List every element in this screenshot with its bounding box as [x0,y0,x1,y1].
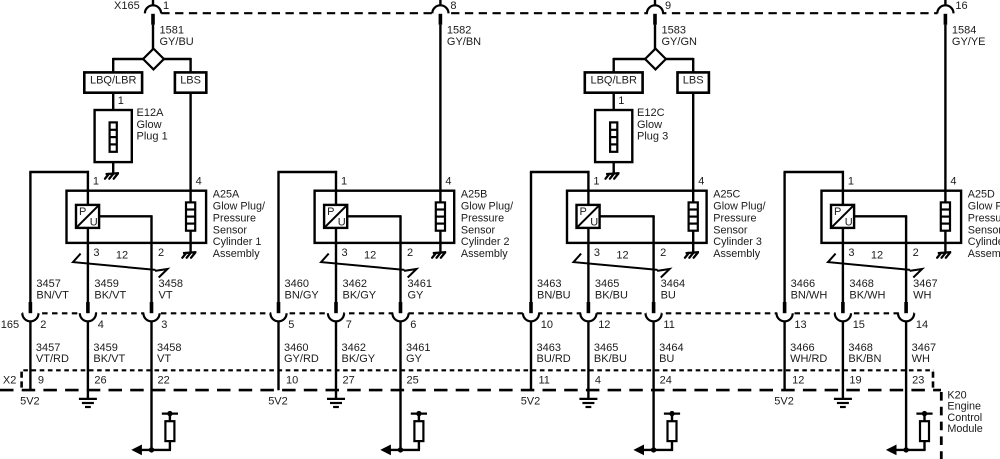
svg-text:5: 5 [288,319,294,331]
svg-text:Sensor: Sensor [213,224,248,236]
svg-text:3465: 3465 [595,278,619,290]
svg-text:2: 2 [660,247,666,259]
svg-text:24: 24 [660,374,672,386]
svg-text:13: 13 [794,319,806,331]
svg-text:3466: 3466 [790,342,814,354]
svg-text:3461: 3461 [408,278,432,290]
svg-text:5V2: 5V2 [521,395,541,407]
svg-text:3465: 3465 [594,342,618,354]
svg-text:Glow Plug/: Glow Plug/ [968,201,1000,213]
svg-text:4: 4 [196,175,202,187]
svg-text:Assembly: Assembly [968,248,1000,260]
svg-text:Sensor: Sensor [968,224,1000,236]
svg-text:VT: VT [159,289,173,301]
svg-text:Assembly: Assembly [461,248,508,260]
svg-text:GY: GY [406,353,423,365]
svg-text:WH: WH [913,289,931,301]
svg-text:12: 12 [616,250,628,262]
svg-text:1: 1 [163,0,169,12]
svg-text:12: 12 [792,374,804,386]
svg-text:165: 165 [1,319,19,331]
svg-text:BU: BU [661,289,676,301]
svg-text:BK/BU: BK/BU [594,353,627,365]
svg-text:2: 2 [158,247,164,259]
svg-text:BK/WH: BK/WH [849,289,885,301]
svg-text:BK/GY: BK/GY [343,289,377,301]
svg-text:3467: 3467 [912,342,936,354]
svg-text:LBS: LBS [180,74,201,86]
svg-text:2: 2 [913,247,919,259]
svg-text:26: 26 [94,374,106,386]
svg-text:22: 22 [158,374,170,386]
svg-text:3459: 3459 [93,342,117,354]
svg-text:8: 8 [450,0,456,12]
svg-text:Glow: Glow [637,119,662,131]
svg-text:6: 6 [410,319,416,331]
svg-text:3: 3 [594,247,600,259]
svg-text:3468: 3468 [849,278,873,290]
svg-text:9: 9 [38,374,44,386]
svg-text:2: 2 [407,247,413,259]
svg-text:GY/BN: GY/BN [447,36,481,48]
svg-text:BU: BU [659,353,674,365]
svg-text:1: 1 [618,95,624,107]
svg-text:BK/BU: BK/BU [595,289,628,301]
svg-text:Sensor: Sensor [713,224,748,236]
svg-text:9: 9 [665,0,671,12]
svg-text:19: 19 [849,374,861,386]
svg-text:3462: 3462 [342,342,366,354]
svg-text:Cylinder 3: Cylinder 3 [713,236,762,248]
svg-text:P: P [834,206,841,218]
svg-text:Pressure: Pressure [213,212,256,224]
svg-text:5V2: 5V2 [774,395,794,407]
svg-text:11: 11 [539,374,550,386]
svg-text:3461: 3461 [406,342,430,354]
svg-text:3: 3 [93,247,99,259]
svg-text:1: 1 [848,175,854,187]
svg-text:Glow Plug/: Glow Plug/ [461,201,513,213]
svg-text:10: 10 [286,374,298,386]
svg-text:3: 3 [342,247,348,259]
svg-text:LBQ/LBR: LBQ/LBR [590,74,637,86]
svg-text:4: 4 [98,319,104,331]
svg-text:3462: 3462 [343,278,367,290]
svg-text:10: 10 [541,319,553,331]
svg-text:4: 4 [595,374,601,386]
svg-text:GY/GN: GY/GN [662,36,698,48]
svg-text:BN/BU: BN/BU [537,289,571,301]
svg-text:14: 14 [916,319,928,331]
svg-text:4: 4 [698,175,704,187]
svg-text:Plug 3: Plug 3 [637,131,668,143]
svg-text:P: P [79,206,86,218]
svg-text:Pressure: Pressure [461,212,504,224]
svg-text:3464: 3464 [661,278,685,290]
svg-text:A25B: A25B [461,189,487,201]
svg-text:Cylinder 2: Cylinder 2 [461,236,510,248]
svg-text:1583: 1583 [662,25,686,37]
svg-text:LBQ/LBR: LBQ/LBR [90,74,137,86]
svg-text:GY/RD: GY/RD [284,353,319,365]
svg-text:3468: 3468 [848,342,872,354]
svg-text:U: U [338,217,346,229]
svg-text:3464: 3464 [659,342,683,354]
svg-text:1582: 1582 [447,25,471,37]
svg-text:VT/RD: VT/RD [36,353,69,365]
svg-text:Module: Module [947,423,982,435]
svg-text:BK/VT: BK/VT [93,353,125,365]
svg-text:27: 27 [343,374,355,386]
svg-text:3463: 3463 [537,342,561,354]
svg-text:WH/RD: WH/RD [790,353,827,365]
svg-text:Assembly: Assembly [713,248,760,260]
svg-text:1: 1 [341,175,347,187]
svg-text:3: 3 [161,319,167,331]
svg-text:WH: WH [912,353,930,365]
svg-text:2: 2 [40,319,46,331]
svg-text:E12A: E12A [137,107,165,119]
svg-text:23: 23 [912,374,924,386]
svg-text:P: P [327,206,334,218]
svg-text:X2: X2 [3,374,16,386]
svg-text:BK/VT: BK/VT [94,289,126,301]
svg-text:BK/GY: BK/GY [342,353,376,365]
svg-text:1: 1 [93,175,99,187]
svg-text:U: U [90,217,98,229]
svg-text:4: 4 [445,175,451,187]
svg-text:1581: 1581 [160,25,184,37]
svg-text:7: 7 [346,319,352,331]
svg-text:P: P [580,206,587,218]
svg-text:5V2: 5V2 [268,395,288,407]
svg-text:3458: 3458 [159,278,183,290]
svg-text:U: U [590,217,598,229]
svg-text:GY: GY [408,289,425,301]
svg-text:Cylinder 1: Cylinder 1 [213,236,262,248]
svg-text:16: 16 [955,0,967,12]
svg-text:3458: 3458 [157,342,181,354]
svg-text:BK/BN: BK/BN [848,353,881,365]
svg-text:1584: 1584 [952,25,976,37]
svg-text:A25D: A25D [968,189,995,201]
svg-text:Glow Plug/: Glow Plug/ [713,201,765,213]
svg-text:VT: VT [157,353,171,365]
svg-text:3460: 3460 [285,278,309,290]
svg-text:11: 11 [663,319,674,331]
svg-text:25: 25 [407,374,419,386]
svg-text:Assembly: Assembly [213,248,260,260]
svg-text:Glow: Glow [137,119,162,131]
svg-text:LBS: LBS [683,74,704,86]
svg-text:3: 3 [848,247,854,259]
svg-text:3460: 3460 [284,342,308,354]
svg-text:BN/WH: BN/WH [791,289,828,301]
svg-text:U: U [845,217,853,229]
svg-text:Cylinder 4: Cylinder 4 [968,236,1000,248]
svg-text:5V2: 5V2 [20,395,40,407]
svg-text:3457: 3457 [36,278,60,290]
svg-text:BN/VT: BN/VT [36,289,69,301]
svg-text:1: 1 [118,95,124,107]
svg-text:E12C: E12C [637,107,665,119]
svg-text:Pressure: Pressure [713,212,756,224]
svg-text:12: 12 [871,250,883,262]
svg-text:GY/BU: GY/BU [160,36,194,48]
svg-text:3463: 3463 [537,278,561,290]
svg-text:Sensor: Sensor [461,224,496,236]
svg-text:12: 12 [364,250,376,262]
svg-text:A25C: A25C [713,189,740,201]
svg-text:X165: X165 [114,0,140,12]
svg-text:BU/RD: BU/RD [537,353,571,365]
svg-text:A25A: A25A [213,189,240,201]
svg-text:Pressure: Pressure [968,212,1000,224]
svg-text:1: 1 [593,175,599,187]
svg-text:Glow Plug/: Glow Plug/ [213,201,265,213]
svg-text:3459: 3459 [94,278,118,290]
svg-text:3467: 3467 [913,278,937,290]
svg-text:BN/GY: BN/GY [285,289,320,301]
svg-text:GY/YE: GY/YE [952,36,986,48]
svg-text:12: 12 [116,250,128,262]
svg-text:Plug 1: Plug 1 [137,131,168,143]
svg-text:12: 12 [598,319,610,331]
svg-text:3466: 3466 [791,278,815,290]
svg-text:4: 4 [950,175,956,187]
svg-text:15: 15 [853,319,865,331]
svg-text:3457: 3457 [36,342,60,354]
